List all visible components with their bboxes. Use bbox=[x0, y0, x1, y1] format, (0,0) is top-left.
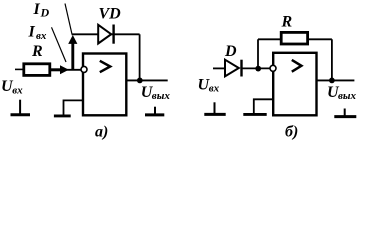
svg-text:вх: вх bbox=[209, 83, 220, 95]
svg-text:вых: вых bbox=[338, 90, 357, 102]
svg-text:б): б) bbox=[285, 124, 298, 141]
svg-text:R: R bbox=[31, 43, 43, 60]
svg-text:D: D bbox=[224, 43, 237, 60]
svg-text:I: I bbox=[28, 23, 36, 40]
svg-text:VD: VD bbox=[99, 5, 122, 22]
svg-text:вх: вх bbox=[12, 84, 23, 96]
svg-text:D: D bbox=[40, 5, 50, 19]
svg-text:вх: вх bbox=[36, 30, 47, 42]
svg-text:а): а) bbox=[95, 124, 108, 141]
svg-text:вых: вых bbox=[152, 90, 171, 102]
svg-text:R: R bbox=[281, 14, 293, 31]
svg-text:I: I bbox=[33, 1, 41, 18]
